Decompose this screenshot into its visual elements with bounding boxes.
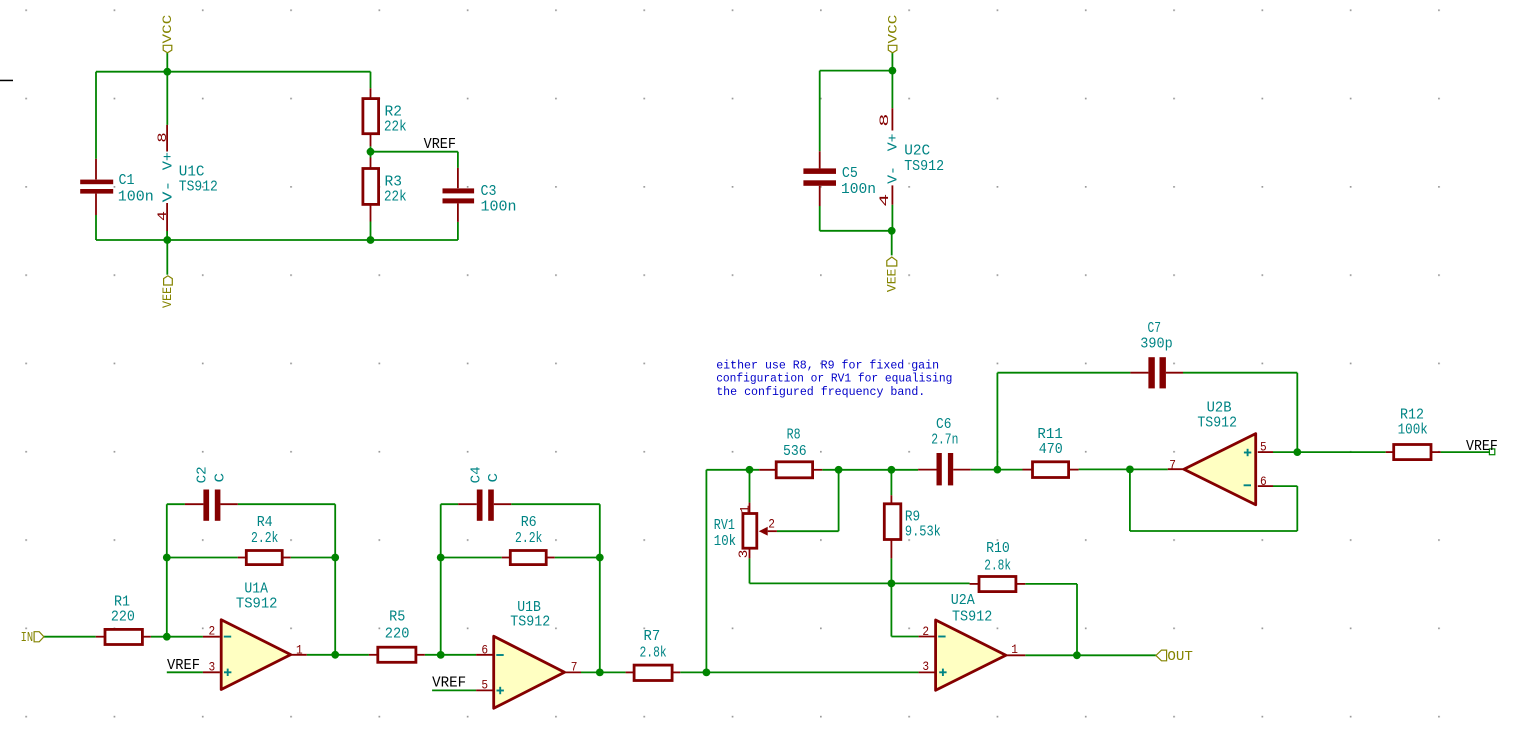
svg-text:100n: 100n	[481, 200, 517, 216]
svg-text:RV1: RV1	[714, 518, 735, 534]
svg-text:VREF: VREF	[432, 674, 466, 691]
svg-text:220: 220	[385, 627, 410, 643]
svg-text:C2: C2	[195, 466, 211, 483]
svg-text:IN: IN	[21, 630, 33, 646]
svg-text:10k: 10k	[714, 534, 736, 550]
svg-text:1: 1	[296, 643, 303, 658]
svg-text:22k: 22k	[384, 190, 407, 206]
svg-text:C4: C4	[469, 466, 485, 483]
svg-text:100n: 100n	[841, 182, 876, 198]
svg-text:3: 3	[736, 550, 751, 559]
svg-text:2: 2	[768, 517, 775, 532]
svg-text:OUT: OUT	[1167, 649, 1193, 665]
svg-text:TS912: TS912	[1197, 415, 1237, 431]
svg-text:U2B: U2B	[1207, 401, 1232, 417]
svg-text:U2C: U2C	[904, 144, 930, 160]
svg-text:536: 536	[783, 444, 807, 460]
svg-text:TS912: TS912	[179, 180, 218, 196]
svg-text:VREF: VREF	[424, 136, 456, 153]
svg-text:2.8k: 2.8k	[984, 558, 1011, 574]
svg-text:VCC: VCC	[885, 15, 900, 44]
svg-text:4: 4	[877, 194, 892, 207]
svg-text:V+: V+	[886, 134, 902, 152]
svg-text:2: 2	[209, 624, 216, 639]
svg-text:1: 1	[737, 505, 752, 514]
svg-text:TS912: TS912	[236, 597, 278, 613]
svg-text:R9: R9	[905, 510, 920, 526]
svg-text:R5: R5	[389, 610, 405, 626]
svg-text:R1: R1	[114, 595, 130, 611]
svg-text:configuration or RV1 for equal: configuration or RV1 for equalising	[716, 372, 952, 386]
svg-text:390p: 390p	[1140, 337, 1172, 353]
svg-text:either use R8, R9 for fixed ga: either use R8, R9 for fixed gain	[716, 358, 939, 372]
svg-text:220: 220	[111, 610, 135, 626]
svg-text:470: 470	[1039, 442, 1063, 458]
svg-text:C5: C5	[842, 166, 858, 182]
svg-text:7: 7	[571, 659, 578, 674]
svg-text:3: 3	[922, 659, 929, 674]
svg-text:V+: V+	[160, 152, 176, 170]
svg-text:2.2k: 2.2k	[251, 531, 278, 547]
svg-text:2.8k: 2.8k	[640, 646, 667, 662]
svg-text:100k: 100k	[1398, 423, 1428, 439]
svg-text:2: 2	[922, 624, 929, 639]
svg-text:TS912: TS912	[952, 610, 992, 626]
svg-text:R8: R8	[787, 428, 801, 444]
svg-text:6: 6	[1260, 474, 1267, 489]
svg-text:R10: R10	[986, 541, 1010, 557]
svg-text:C6: C6	[936, 417, 951, 433]
svg-text:the configured frequency band.: the configured frequency band.	[716, 385, 925, 399]
svg-text:R6: R6	[521, 515, 537, 531]
svg-text:100n: 100n	[118, 190, 154, 206]
svg-text:R4: R4	[257, 515, 273, 531]
svg-text:4: 4	[155, 211, 170, 221]
svg-text:C7: C7	[1148, 321, 1162, 337]
svg-text:U2A: U2A	[951, 593, 975, 609]
svg-text:R3: R3	[385, 175, 403, 191]
svg-text:V-: V-	[886, 166, 902, 184]
svg-text:6: 6	[481, 643, 488, 658]
svg-text:V-: V-	[160, 181, 176, 203]
svg-text:VCC: VCC	[160, 15, 175, 44]
svg-text:22k: 22k	[384, 120, 407, 136]
svg-text:R2: R2	[385, 105, 403, 121]
svg-text:9.53k: 9.53k	[905, 525, 941, 541]
svg-text:VEE: VEE	[885, 269, 900, 293]
svg-text:1: 1	[1011, 642, 1018, 657]
svg-text:3: 3	[209, 660, 216, 675]
svg-text:R7: R7	[644, 629, 661, 645]
svg-text:U1A: U1A	[244, 582, 268, 598]
svg-text:VREF: VREF	[167, 657, 200, 674]
svg-text:TS912: TS912	[904, 159, 944, 175]
svg-text:U1C: U1C	[179, 165, 205, 181]
svg-text:R11: R11	[1037, 427, 1063, 443]
svg-text:5: 5	[1260, 440, 1267, 455]
svg-text:2.2k: 2.2k	[515, 531, 542, 547]
svg-text:C: C	[213, 473, 229, 483]
svg-text:C1: C1	[119, 173, 135, 189]
svg-text:C: C	[486, 473, 502, 483]
svg-text:R12: R12	[1400, 408, 1424, 424]
svg-text:VEE: VEE	[160, 287, 175, 308]
svg-text:2.7n: 2.7n	[931, 433, 958, 449]
svg-text:8: 8	[155, 132, 170, 142]
svg-text:7: 7	[1169, 458, 1176, 473]
svg-text:8: 8	[877, 113, 892, 126]
svg-text:C3: C3	[481, 184, 497, 200]
svg-text:TS912: TS912	[510, 614, 550, 630]
svg-text:VREF: VREF	[1466, 438, 1498, 455]
svg-text:5: 5	[481, 677, 488, 692]
